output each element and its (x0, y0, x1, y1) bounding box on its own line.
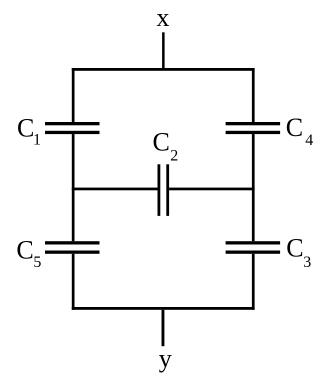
svg-text:C: C (16, 235, 33, 264)
svg-text:5: 5 (33, 254, 41, 271)
svg-text:2: 2 (170, 148, 178, 165)
svg-text:C: C (286, 113, 303, 142)
svg-text:1: 1 (33, 131, 41, 148)
svg-text:x: x (156, 3, 169, 32)
svg-text:y: y (159, 344, 172, 373)
svg-text:C: C (153, 128, 170, 157)
svg-text:C: C (17, 113, 34, 142)
svg-text:4: 4 (305, 132, 313, 149)
svg-text:3: 3 (303, 254, 311, 271)
svg-text:C: C (286, 233, 303, 262)
